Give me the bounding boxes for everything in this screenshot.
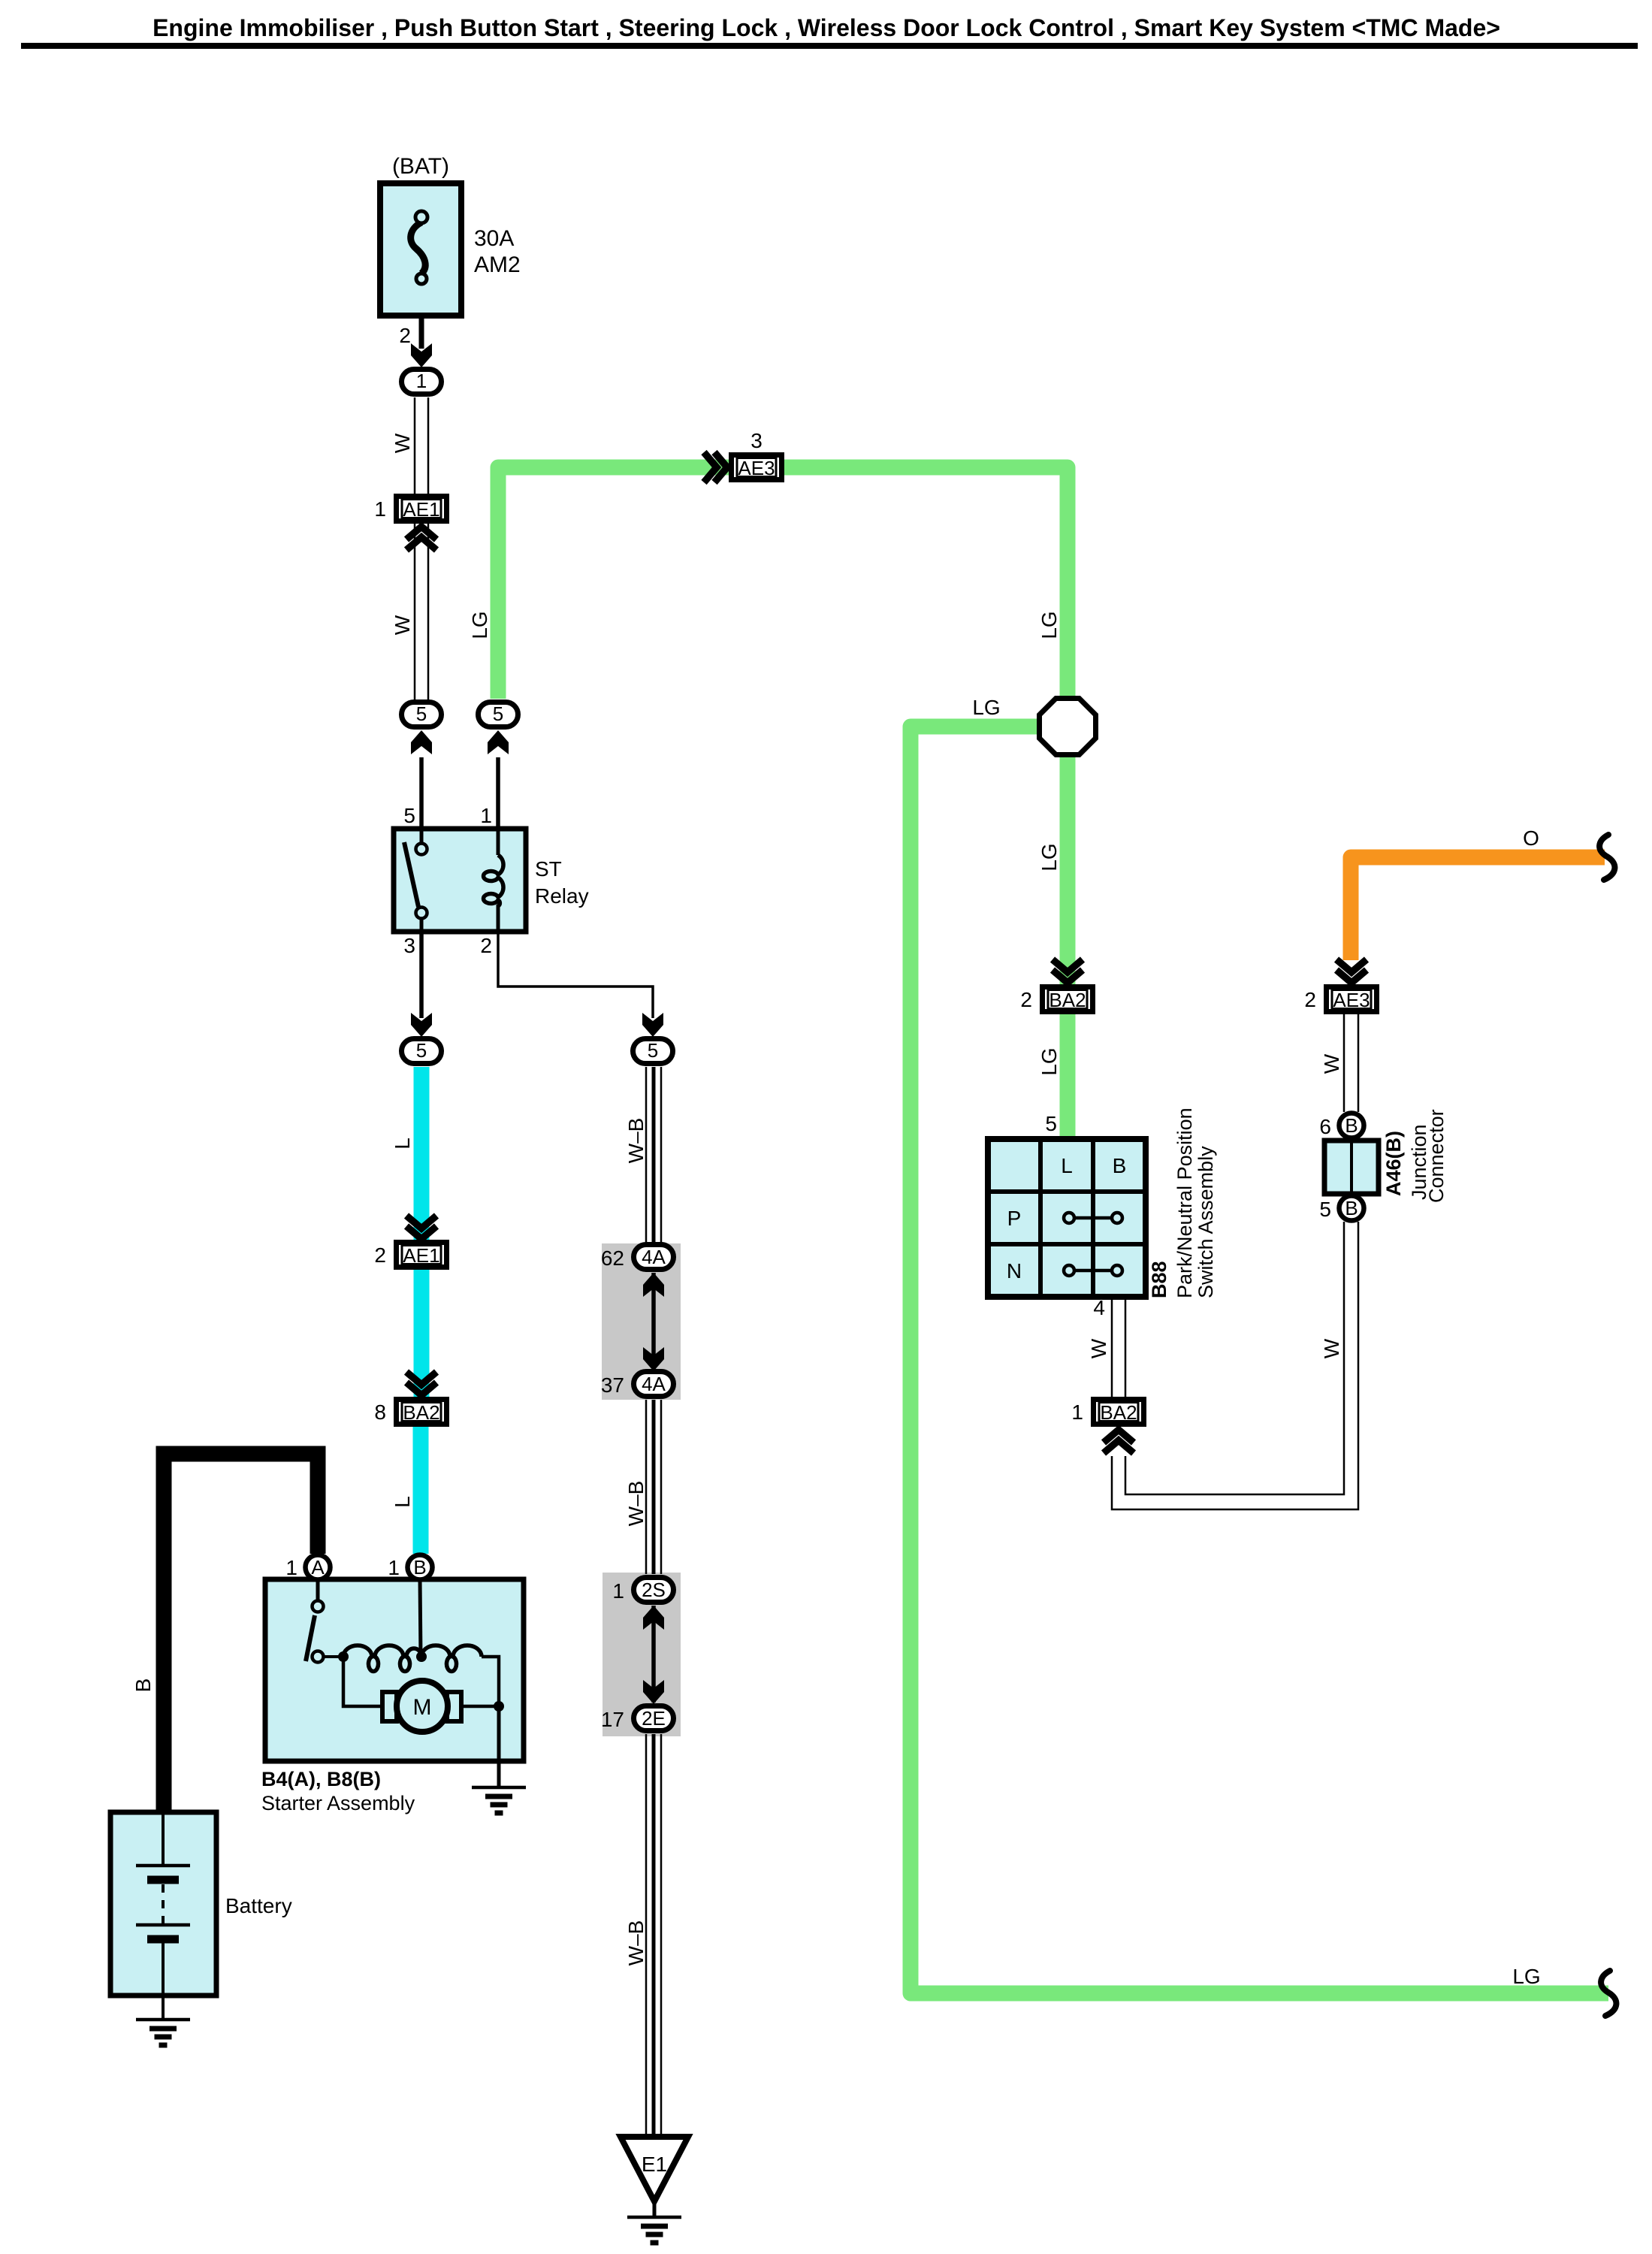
B88 park/neutral switch body <box>988 1139 1146 1297</box>
svg-text:LG: LG <box>1037 611 1061 639</box>
wire B battery cable <box>164 1454 318 1812</box>
svg-text:8: 8 <box>374 1400 386 1424</box>
svg-text:6: 6 <box>1319 1115 1331 1138</box>
svg-text:4: 4 <box>1093 1296 1105 1319</box>
svg-text:B88: B88 <box>1148 1261 1170 1298</box>
connector box 1 AE1 <box>397 497 447 521</box>
svg-text:W: W <box>1087 1338 1110 1358</box>
svg-text:L: L <box>391 1138 414 1150</box>
connector oval 1 2S <box>634 1578 674 1603</box>
connector box 8 BA2 <box>397 1400 447 1425</box>
fuse element <box>411 222 426 273</box>
connector box 1 BA2 <box>1094 1400 1144 1425</box>
svg-text:3: 3 <box>750 429 763 452</box>
wire W fuse to AE1 (double line) <box>414 397 416 494</box>
connector oval 37 4A <box>634 1372 674 1397</box>
chevrons down into connector AE1 pin2 <box>406 1216 436 1239</box>
battery internals <box>162 1812 165 1866</box>
connector oval 62 4A <box>634 1245 674 1270</box>
svg-text:ST: ST <box>535 857 562 881</box>
svg-text:Battery: Battery <box>225 1894 292 1917</box>
svg-text:B4(A), B8(B): B4(A), B8(B) <box>261 1768 381 1790</box>
svg-text:2: 2 <box>374 1243 386 1267</box>
arrow down into oval 5 below relay pin3 <box>411 1013 432 1037</box>
connector oval 5 relay pin5 <box>402 702 442 727</box>
starter hold-in coil <box>338 1651 349 1662</box>
wire W B88 pin4 to BA2 (double line) <box>1111 1297 1113 1397</box>
svg-text:1: 1 <box>416 370 427 392</box>
wire O orange from right edge to AE3 <box>1351 857 1605 960</box>
svg-text:AE1: AE1 <box>403 498 439 521</box>
gray harness box 4A <box>602 1243 681 1400</box>
wire inside 2S/2E harness <box>651 1606 656 1703</box>
svg-text:B: B <box>413 1556 426 1579</box>
starter motor brushes <box>382 1692 397 1721</box>
chevrons up below connector BA2 pin1 <box>1104 1430 1134 1453</box>
svg-text:LG: LG <box>468 611 491 639</box>
starter motor wires <box>343 1657 382 1706</box>
svg-text:AE1: AE1 <box>403 1244 439 1267</box>
relay switch blade <box>404 842 418 907</box>
arrow up below oval 1-2S <box>643 1606 664 1630</box>
wire W-B 4A to 2S <box>645 1400 648 1574</box>
title underline <box>21 43 1638 49</box>
svg-text:2: 2 <box>399 324 411 347</box>
wire relay pin1 black <box>496 757 500 829</box>
arrow up into relay oval 5 right <box>488 730 509 754</box>
relay coil <box>497 829 500 855</box>
ground symbol E1 <box>627 2217 681 2243</box>
battery body <box>110 1812 216 1996</box>
starter pull-in coil <box>421 1645 482 1672</box>
svg-text:Connector: Connector <box>1425 1109 1448 1203</box>
svg-text:1: 1 <box>612 1579 624 1603</box>
connector box 3 AE3 <box>732 455 782 480</box>
chevrons right into connector AE3 pin3 <box>704 452 727 482</box>
B88 contact N row <box>1069 1269 1117 1273</box>
connector oval 17 2E <box>634 1706 674 1731</box>
svg-text:LG: LG <box>972 696 1000 719</box>
wire W AE3 to junction connector B6 (double line) <box>1343 1014 1345 1112</box>
svg-text:Engine Immobiliser , Push Butt: Engine Immobiliser , Push Button Start ,… <box>153 14 1500 41</box>
ground below battery <box>136 2020 190 2045</box>
svg-text:5: 5 <box>493 702 503 725</box>
wire relay pin2 to oval 5 <box>498 932 653 1018</box>
starter assembly body <box>265 1579 524 1761</box>
wire W-B 2E to ground E1 <box>645 1734 648 2137</box>
svg-text:N: N <box>1007 1259 1022 1283</box>
svg-text:B: B <box>1113 1154 1127 1177</box>
arrow down into oval 17-2E <box>643 1680 664 1704</box>
svg-text:4A: 4A <box>642 1373 666 1395</box>
splice octagon LG <box>1040 699 1096 755</box>
svg-text:2: 2 <box>1020 988 1032 1011</box>
svg-text:Starter Assembly: Starter Assembly <box>261 1792 415 1814</box>
svg-text:LG: LG <box>1037 843 1061 871</box>
svg-text:LG: LG <box>1512 1965 1540 1988</box>
svg-text:1: 1 <box>480 804 492 827</box>
svg-text:2E: 2E <box>642 1707 666 1730</box>
svg-text:37: 37 <box>601 1373 624 1397</box>
connector box 2 AE1 <box>397 1243 447 1267</box>
svg-text:Park/Neutral Position: Park/Neutral Position <box>1173 1107 1196 1298</box>
connector oval 5 relay pin1 <box>479 702 518 727</box>
connector box 2 BA2 <box>1043 987 1093 1012</box>
junction connector A46(B) body <box>1324 1141 1379 1194</box>
svg-text:(BAT): (BAT) <box>392 154 449 179</box>
arrow down into oval 5 below relay pin2 <box>642 1013 663 1037</box>
svg-text:W: W <box>391 615 414 635</box>
wire LG from relay coil oval up and across to AE3 and down to splice <box>498 467 1068 699</box>
starter terminal circle A <box>306 1555 331 1580</box>
svg-text:1: 1 <box>388 1556 400 1579</box>
svg-text:4A: 4A <box>642 1246 666 1268</box>
svg-text:B: B <box>131 1678 155 1693</box>
starter switch <box>316 1582 320 1601</box>
svg-text:1: 1 <box>374 497 386 521</box>
wire relay pin5 black <box>419 757 424 829</box>
connector oval 5 below relay pin3 <box>402 1039 442 1064</box>
chevrons down into connector BA2 pin2 <box>1053 959 1083 983</box>
svg-text:L: L <box>1061 1154 1073 1177</box>
svg-text:BA2: BA2 <box>403 1401 439 1424</box>
svg-text:W–B: W–B <box>624 1920 648 1966</box>
svg-text:2: 2 <box>1304 988 1316 1011</box>
chevrons down into connector BA2 pin8 <box>406 1372 436 1395</box>
svg-text:W: W <box>391 433 414 453</box>
svg-text:1: 1 <box>285 1556 297 1579</box>
chevrons down into connector AE3 pin2 <box>1336 959 1367 983</box>
wire W-B relay oval to 4A (double line + black core) <box>645 1067 648 1243</box>
svg-text:W: W <box>1320 1338 1343 1358</box>
starter B terminal wire <box>420 1579 421 1657</box>
relay switch contact top <box>420 829 424 843</box>
svg-text:O: O <box>1523 826 1539 850</box>
svg-text:P: P <box>1007 1207 1022 1230</box>
ground E1 triangle <box>621 2137 688 2201</box>
ST relay body <box>394 829 526 932</box>
gray harness box 2S/2E <box>603 1573 681 1736</box>
svg-text:A46(B): A46(B) <box>1382 1131 1405 1196</box>
wire LG continuation curl at right edge <box>1601 1971 1616 2016</box>
svg-text:1: 1 <box>1071 1400 1083 1424</box>
wire fuse output to connector oval 1 <box>419 316 424 349</box>
wire LG splice to BA2 and B88 switch <box>1060 755 1076 1139</box>
starter terminal circle B <box>408 1555 433 1580</box>
connector oval 5 below relay pin2 <box>633 1039 673 1064</box>
wire inside 4A harness <box>651 1273 656 1369</box>
svg-text:W–B: W–B <box>624 1481 648 1527</box>
connector oval 1 below fuse <box>402 370 442 394</box>
B88 contact P row <box>1069 1216 1117 1220</box>
svg-text:AE3: AE3 <box>738 457 775 479</box>
connector box 2 AE3 <box>1327 987 1377 1012</box>
svg-text:Switch Assembly: Switch Assembly <box>1194 1146 1217 1298</box>
svg-text:5: 5 <box>416 702 427 725</box>
svg-text:L: L <box>391 1496 414 1508</box>
svg-text:17: 17 <box>601 1708 624 1731</box>
junction connector circle B pin5 <box>1339 1196 1364 1221</box>
svg-text:W: W <box>1320 1053 1343 1074</box>
svg-text:BA2: BA2 <box>1049 989 1086 1011</box>
wire relay pin3 to oval 5 <box>419 932 424 1018</box>
ground below starter <box>472 1787 526 1813</box>
junction connector circle B pin6 <box>1339 1113 1364 1138</box>
svg-text:5: 5 <box>416 1039 427 1062</box>
svg-text:5: 5 <box>648 1039 658 1062</box>
wire LG splice left, down and to right edge <box>911 727 1608 1993</box>
svg-text:30A: 30A <box>474 226 514 251</box>
svg-text:5: 5 <box>1045 1112 1057 1135</box>
svg-text:62: 62 <box>601 1246 624 1270</box>
wire O continuation curl at right edge <box>1599 835 1614 880</box>
fuse 30A AM2 body <box>380 183 461 316</box>
svg-text:2S: 2S <box>642 1579 666 1601</box>
svg-text:AM2: AM2 <box>474 252 521 277</box>
svg-text:A: A <box>311 1556 325 1579</box>
svg-text:5: 5 <box>403 804 415 827</box>
starter motor M <box>397 1681 448 1732</box>
svg-text:M: M <box>413 1695 432 1720</box>
wire W AE1 to relay oval (double line) <box>414 524 416 699</box>
arrow up below oval 62-4A <box>643 1273 664 1297</box>
arrow up into relay oval 5 left <box>411 730 432 754</box>
svg-text:BA2: BA2 <box>1100 1401 1137 1424</box>
svg-text:W–B: W–B <box>624 1118 648 1164</box>
svg-text:Relay: Relay <box>535 884 589 908</box>
svg-text:B: B <box>1345 1114 1358 1137</box>
arrow down into oval 37-4A <box>643 1347 664 1371</box>
arrow from fuse into oval 1 <box>411 343 432 367</box>
svg-text:E1: E1 <box>642 2153 667 2176</box>
wire W BA2 loop to junction connector B5 (double line) <box>1112 1222 1358 1509</box>
svg-text:LG: LG <box>1037 1047 1061 1075</box>
wire L cyan relay to AE1 to BA2 to starter B <box>414 1067 430 1247</box>
svg-text:3: 3 <box>403 934 415 957</box>
svg-text:5: 5 <box>1319 1198 1331 1221</box>
svg-text:2: 2 <box>480 934 492 957</box>
svg-text:B: B <box>1345 1197 1358 1219</box>
chevrons up below connector AE1 pin1 <box>406 527 436 550</box>
svg-text:AE3: AE3 <box>1333 989 1370 1011</box>
relay switch contact bottom <box>416 908 427 919</box>
